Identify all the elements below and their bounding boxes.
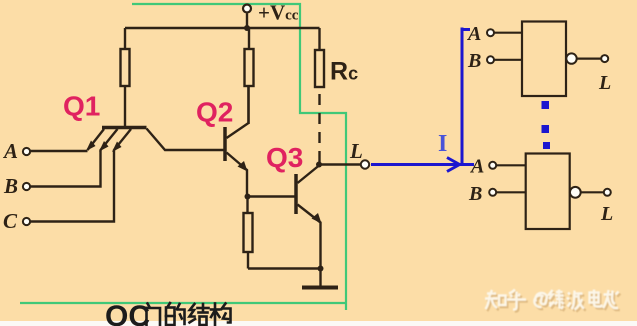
svg-text:L: L bbox=[349, 139, 363, 163]
svg-text:I: I bbox=[438, 131, 447, 157]
svg-text:L: L bbox=[600, 203, 613, 225]
svg-text:B: B bbox=[3, 174, 18, 198]
svg-text:B: B bbox=[468, 183, 482, 205]
svg-text:A: A bbox=[2, 139, 18, 163]
svg-text:A: A bbox=[466, 23, 481, 45]
svg-text:B: B bbox=[467, 50, 481, 72]
svg-text:Q3: Q3 bbox=[266, 142, 303, 173]
svg-text:L: L bbox=[598, 72, 611, 94]
svg-text:C: C bbox=[3, 209, 18, 233]
svg-text:Q2: Q2 bbox=[196, 97, 233, 128]
svg-text:OC: OC bbox=[105, 300, 150, 326]
svg-text:A: A bbox=[469, 156, 484, 178]
svg-text:Q1: Q1 bbox=[63, 91, 100, 122]
